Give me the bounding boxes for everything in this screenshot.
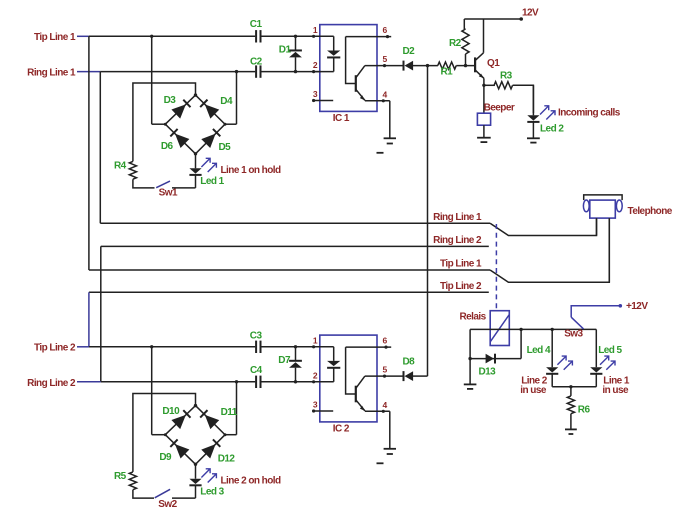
svg-text:D6: D6 [161,141,174,152]
wire Ring Line 1 lead [77,71,100,73]
wire bridge2 edges [165,404,225,466]
diode D7 [278,345,302,383]
svg-text:Incoming calls: Incoming calls [558,107,621,118]
svg-text:D10: D10 [162,406,180,417]
resistor R6 [567,387,590,429]
resistor R2 [449,19,469,66]
svg-text:5: 5 [383,54,388,64]
wire relay row [470,328,596,331]
diode D4 [200,96,233,119]
wire Sw2 to Led3 [172,497,196,499]
pin 6 IC1 [346,25,392,38]
svg-text:Sw3: Sw3 [564,329,583,340]
pin 1 IC1 [312,25,334,38]
beeper [477,103,514,126]
svg-text:1: 1 [313,25,318,35]
wire R3 to Led2 [513,85,534,113]
wire relay left down [468,329,471,384]
svg-text:Tip Line 2: Tip Line 2 [440,281,482,292]
relay Relais [460,311,510,346]
node 12V label [522,7,539,18]
svg-text:IC 2: IC 2 [333,424,350,435]
svg-text:4: 4 [383,89,388,99]
svg-text:2: 2 [313,370,318,380]
wire led bottom row [552,385,596,388]
svg-text:R6: R6 [578,405,591,416]
node Tip Line 2 bus label [440,281,482,292]
diode D2 [403,46,416,71]
wire Tip2 to bridge2 left vertex [150,345,167,436]
diode D12 [201,439,235,464]
capacitor C2 [250,56,263,78]
svg-text:Led 4: Led 4 [527,345,551,356]
diode D10 [162,406,190,429]
svg-text:C2: C2 [250,56,263,67]
pin 6 IC2 [346,336,392,349]
node Ring Line 1 label [27,68,76,79]
svg-text:C4: C4 [250,365,263,376]
pin 3 IC1 [312,89,333,102]
svg-text:Ring Line 2: Ring Line 2 [27,378,76,389]
resistor R5 [114,471,137,490]
svg-text:Sw1: Sw1 [159,188,178,199]
wire Tip Line 1 horizontal [89,35,321,37]
capacitor C3 [250,330,263,353]
op-amp IC1 box [320,25,377,125]
wire bridge2 top to R5 [133,394,196,472]
diode D5 [201,129,231,153]
svg-text:Telephone: Telephone [628,206,673,217]
svg-text:Led 1: Led 1 [200,176,224,187]
diode D9 [159,439,189,463]
node Line 2 in use label [520,376,547,397]
node Tip Line 2 label [34,343,76,354]
wire R1 to Q1 base [456,64,475,67]
wire relay linkage dashed [495,224,497,310]
resistor R1 [438,62,457,78]
svg-text:12V: 12V [522,7,539,18]
wire Ring Line 2 lead [77,381,101,383]
wire bridge1 edges [165,93,225,155]
pin 5 IC1 [365,54,403,67]
svg-text:D8: D8 [403,357,416,368]
wire D2 to R1 [413,64,438,67]
transistor inside IC1 [346,37,365,101]
svg-text:Ring Line 2: Ring Line 2 [433,235,482,246]
svg-text:D5: D5 [219,142,232,153]
diode D13 [470,354,521,378]
svg-text:2: 2 [313,60,318,70]
diode D6 [161,129,189,152]
svg-text:Tip Line 1: Tip Line 1 [34,32,76,43]
ground R6 [565,429,577,434]
node Tip Line 1 label [34,32,76,43]
svg-text:+12V: +12V [626,301,648,312]
diode D1 [279,35,302,74]
transistor inside IC2 [346,347,365,411]
wire D8 to vertical [413,375,428,377]
svg-text:D2: D2 [403,46,416,57]
led Led 3 [189,464,224,498]
led Led 4 [527,329,573,386]
svg-text:IC 1: IC 1 [333,113,350,124]
wire Ring Line 1 bus [100,218,596,235]
wire Ring Line 2 bus [101,246,489,381]
svg-text:Tip Line 1: Tip Line 1 [440,259,482,270]
wire vertical D2 junction to D8 [427,66,429,377]
transistor Q1 [475,19,500,113]
pin 2 IC1 [312,60,334,73]
svg-text:Line 2 on hold: Line 2 on hold [221,475,282,486]
ground relay [464,384,477,389]
wire Ring Line 2 horizontal [101,381,321,383]
svg-text:6: 6 [383,25,388,35]
svg-text:D12: D12 [218,454,236,465]
svg-text:Line 1 on hold: Line 1 on hold [221,165,282,176]
wire R4 to Sw1 [133,179,155,188]
diode D3 [164,95,191,119]
svg-text:Led 2: Led 2 [540,124,564,135]
svg-text:Relais: Relais [460,312,487,323]
svg-text:R5: R5 [114,471,127,482]
pin 1 IC2 [312,335,334,348]
wire Tip to bridge1 left vertex [150,35,167,126]
svg-text:D4: D4 [220,96,233,107]
svg-text:3: 3 [313,89,318,99]
svg-text:3: 3 [313,400,318,410]
diode D11 [200,407,238,429]
diode D8 [403,357,416,382]
node Tip Line 1 bus label [440,259,482,270]
node Ring Line 2 label [27,378,76,389]
wire Ring Line 1 horizontal [100,71,321,73]
svg-text:C1: C1 [250,19,263,30]
svg-text:D9: D9 [159,452,172,463]
wire D13 up [520,329,522,358]
svg-text:D13: D13 [479,366,497,377]
diode inside IC1 [327,36,340,71]
wire Sw1 to Led1 [172,187,196,189]
ground Led2 [527,138,540,142]
telephone [583,195,672,218]
switch Sw3 [564,304,622,340]
pin 2 IC2 [312,370,334,383]
svg-text:R1: R1 [441,67,454,78]
resistor R4 [114,160,137,179]
node Ring Line 1 bus label [433,212,482,223]
pin 3 IC2 [312,400,333,413]
svg-text:Ring Line 1: Ring Line 1 [433,212,482,223]
ground IC2 pin4 [377,411,397,463]
svg-text:R4: R4 [114,160,127,171]
svg-text:1: 1 [313,335,318,345]
led Led 5 [590,329,622,386]
svg-text:in use: in use [602,385,629,396]
diode inside IC2 [327,347,340,382]
svg-text:Sw2: Sw2 [158,499,177,510]
wire R5 to Sw2 [133,490,154,498]
wire Tip Line 2 lead [77,346,89,348]
node Line 1 on hold label [221,165,282,176]
node Incoming calls label [558,107,621,118]
svg-text:D11: D11 [221,407,238,418]
wire 12V rail [464,17,523,21]
pin 4 IC1 [365,89,390,102]
resistor R3 [494,70,513,89]
wire emitter node [482,84,495,87]
svg-text:Beeper: Beeper [484,103,515,114]
led Led 1 [189,153,224,188]
wire telephone left lead [596,218,598,235]
wire Ring Line 1 drop to bus [99,72,101,224]
wire Tip Line 1 drop to bus [88,36,90,270]
capacitor C4 [250,365,263,388]
wire Ring2 to bridge2 right vertex [224,380,239,436]
svg-text:Ring Line 1: Ring Line 1 [27,68,76,79]
led Led 2 [527,85,564,138]
node Line 2 on hold label [221,475,282,486]
svg-text:6: 6 [383,336,388,346]
ground IC1 pin4 [377,101,397,153]
svg-text:D3: D3 [164,95,177,106]
svg-text:in use: in use [520,385,547,396]
ground beeper [477,125,491,142]
switch Sw2 [155,489,178,510]
wire Ring to bridge1 right vertex [224,70,239,126]
svg-text:C3: C3 [250,330,263,341]
wire Tip Line 2 horizontal [89,346,321,348]
wire Tip Line 1 bus [89,218,609,282]
wire Tip Line 1 lead [77,35,89,37]
switch Sw1 [156,181,178,199]
svg-text:Led 3: Led 3 [200,486,224,497]
node Ring Line 2 bus label [433,235,482,246]
wire telephone right lead [608,218,610,282]
svg-text:R3: R3 [500,70,513,81]
pin 4 IC2 [365,400,390,413]
pin 5 IC2 [365,365,403,378]
svg-text:Q1: Q1 [487,58,500,69]
wire Tip Line 2 bus [89,292,489,347]
node +12V label [626,301,648,312]
op-amp IC2 box [320,335,377,435]
svg-text:5: 5 [383,365,388,375]
node Line 1 in use label [602,376,629,397]
svg-text:Tip Line 2: Tip Line 2 [34,343,76,354]
svg-text:R2: R2 [449,38,462,49]
wire bridge1 top to R4 [133,83,196,161]
svg-text:4: 4 [383,400,388,410]
svg-text:D7: D7 [278,355,291,366]
svg-text:Led 5: Led 5 [598,345,622,356]
capacitor C1 [250,19,263,43]
svg-text:D1: D1 [279,45,292,56]
